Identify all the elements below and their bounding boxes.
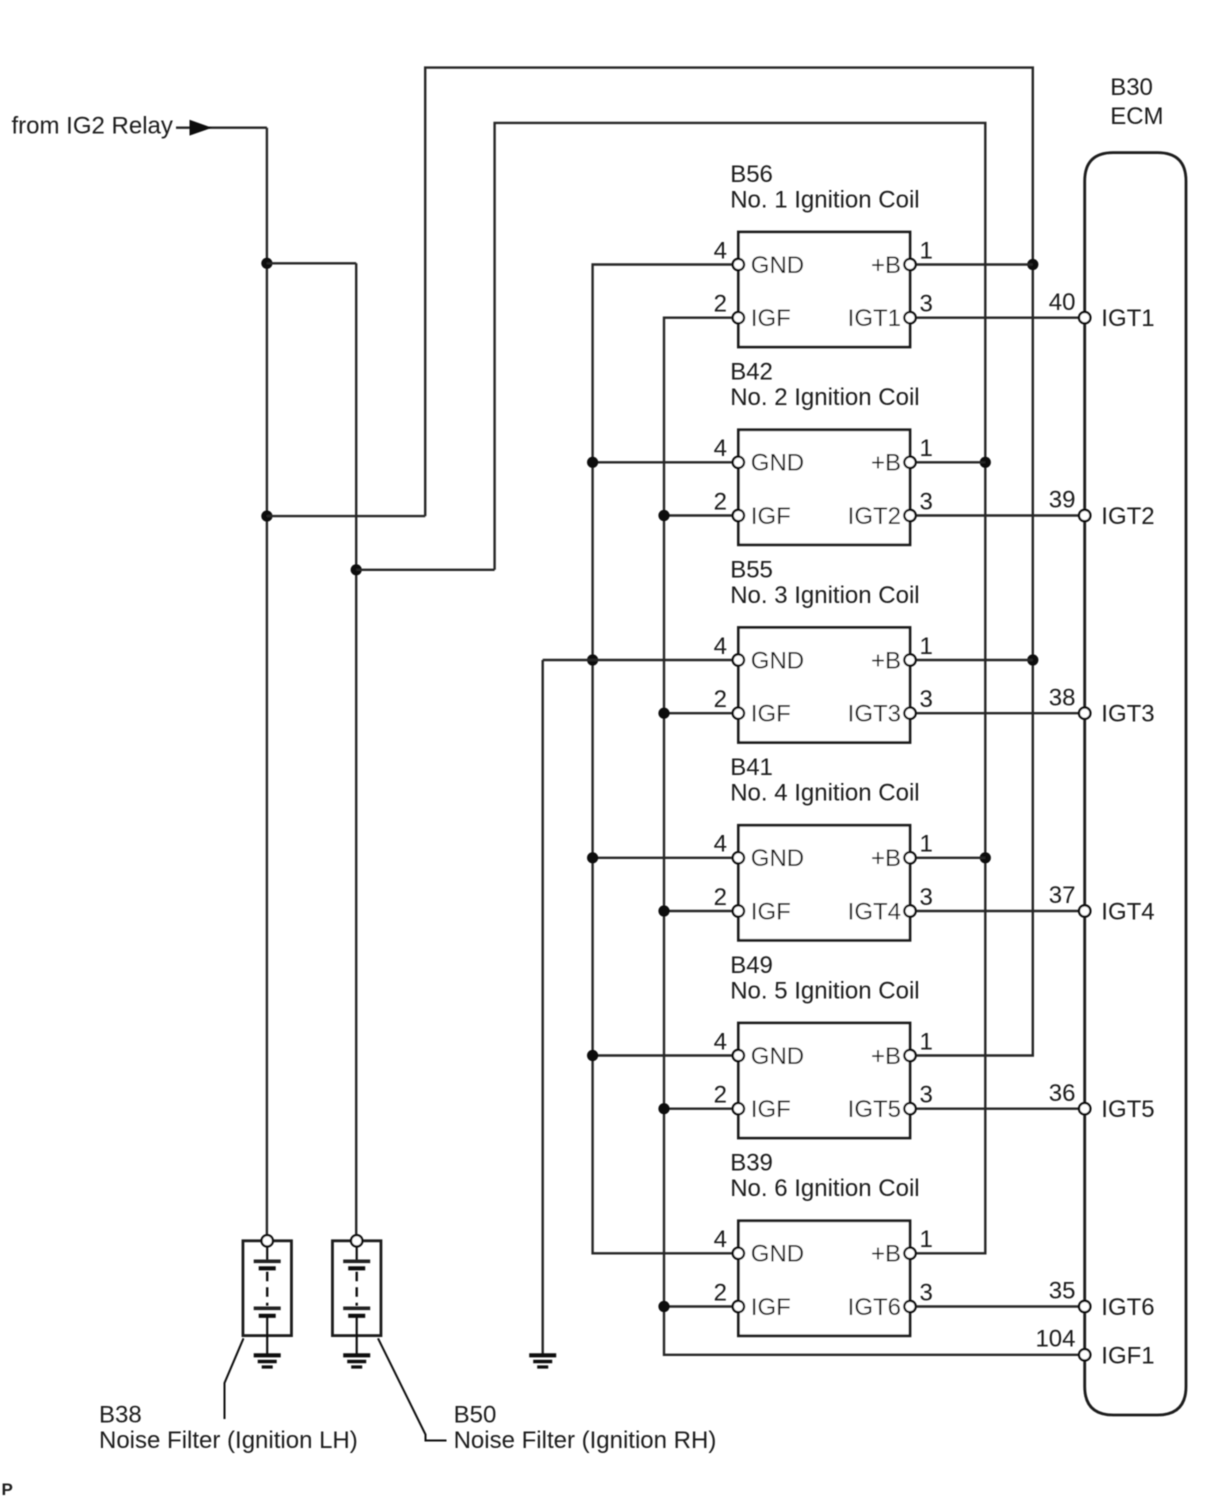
coil B39 pin 2 (IGF) xyxy=(733,1301,744,1312)
svg-text:IGT3: IGT3 xyxy=(1101,701,1154,728)
wire: coil 4 +B stub xyxy=(910,857,985,859)
junction: GND bus at coil 2 xyxy=(587,457,598,468)
svg-text:40: 40 xyxy=(1049,289,1076,316)
svg-text:4: 4 xyxy=(714,633,727,660)
coil B49 pin 3 (IGT5) xyxy=(904,1103,915,1114)
svg-text:IGF: IGF xyxy=(751,305,791,332)
svg-text:No. 4 Ignition Coil: No. 4 Ignition Coil xyxy=(730,780,919,807)
ground symbol under B50 xyxy=(343,1355,370,1367)
coil B42 pin 4 (GND) xyxy=(733,457,744,468)
svg-text:GND: GND xyxy=(751,845,804,872)
label B50 Noise Filter (Ignition RH) xyxy=(454,1401,717,1454)
svg-text:1: 1 xyxy=(920,1028,933,1055)
wire: IGF stub coil 5 xyxy=(664,1107,738,1109)
svg-text:GND: GND xyxy=(751,1043,804,1070)
ignition coil B42 (No. 2 Ignition Coil) xyxy=(714,359,933,545)
wire: tap to +B bus A riser xyxy=(267,515,425,517)
svg-text:P: P xyxy=(2,1480,13,1498)
coil B55 pin 3 (IGT3) xyxy=(904,708,915,719)
ECM pin 35 (IGT6) xyxy=(1049,1278,1155,1321)
ignition coil B56 (No. 1 Ignition Coil) xyxy=(714,161,933,347)
coil B55 pin 1 (+B) xyxy=(904,654,915,665)
wire: IGT2 from coil 2 to ECM xyxy=(910,514,1085,516)
junction: GND bus at coil 5 xyxy=(587,1050,598,1061)
wire: IG2 feed with arrowhead xyxy=(176,126,267,128)
svg-text:IGT1: IGT1 xyxy=(1101,305,1154,332)
junction: bus B / coil 2 +B xyxy=(980,457,991,468)
wire: IG2 vertical drop to noise filter B38 xyxy=(266,128,268,1236)
ignition coil B41 (No. 4 Ignition Coil) xyxy=(714,754,933,940)
svg-text:No. 1 Ignition Coil: No. 1 Ignition Coil xyxy=(730,186,919,213)
svg-text:36: 36 xyxy=(1049,1080,1076,1107)
svg-text:+B: +B xyxy=(871,845,901,872)
coil B49 pin 1 (+B) xyxy=(904,1050,915,1061)
coil B55 pin 4 (GND) xyxy=(733,654,744,665)
wire: IGF stub coil 3 xyxy=(664,712,738,714)
svg-text:1: 1 xyxy=(920,435,933,462)
wire from B38 to ground xyxy=(266,1316,268,1356)
dashed link inside B50 xyxy=(356,1272,358,1306)
coil B56 pin 2 (IGF) xyxy=(733,312,744,323)
coil B39 pin 1 (+B) xyxy=(904,1248,915,1259)
junction: IGF bus at coil 5 xyxy=(658,1103,669,1114)
ignition coil B49 (No. 5 Ignition Coil) xyxy=(714,952,933,1138)
leader line to B38 label xyxy=(225,1338,244,1419)
svg-text:No. 3 Ignition Coil: No. 3 Ignition Coil xyxy=(730,582,919,609)
wire: IGF stub coil 2 xyxy=(664,514,738,516)
svg-text:+B: +B xyxy=(871,1241,901,1268)
svg-text:ECM: ECM xyxy=(1110,103,1163,130)
svg-text:4: 4 xyxy=(714,1226,727,1253)
ignition coil B39 (No. 6 Ignition Coil) xyxy=(714,1150,933,1336)
svg-text:3: 3 xyxy=(920,1082,933,1109)
wire: IGT1 from coil 1 to ECM xyxy=(910,317,1085,319)
capacitor C2 of B50 (lower plates) xyxy=(343,1307,370,1311)
svg-text:IGF: IGF xyxy=(751,503,791,530)
svg-text:from IG2 Relay: from IG2 Relay xyxy=(12,113,173,140)
ground symbol (center) xyxy=(529,1355,556,1367)
wire: GND bus down left of coils xyxy=(593,265,739,1254)
svg-text:B38: B38 xyxy=(99,1401,142,1428)
svg-text:4: 4 xyxy=(714,831,727,858)
wire: IGT5 from coil 5 to ECM xyxy=(910,1107,1085,1109)
svg-text:IGF: IGF xyxy=(751,898,791,925)
svg-text:+B: +B xyxy=(871,1043,901,1070)
coil B55 pin 2 (IGF) xyxy=(733,708,744,719)
svg-text:104: 104 xyxy=(1035,1326,1075,1353)
ECM pin 38 (IGT3) xyxy=(1049,684,1155,727)
coil B49 pin 4 (GND) xyxy=(733,1050,744,1061)
ECM pin 39 (IGT2) xyxy=(1049,487,1155,530)
coil B39 pin 3 (IGT6) xyxy=(904,1301,915,1312)
leader line to B50 label xyxy=(378,1338,447,1440)
svg-text:Noise Filter (Ignition RH): Noise Filter (Ignition RH) xyxy=(454,1427,717,1454)
svg-text:B50: B50 xyxy=(454,1401,497,1428)
svg-text:+B: +B xyxy=(871,252,901,279)
ECM B30 connector outline xyxy=(1085,74,1186,1415)
svg-text:2: 2 xyxy=(714,884,727,911)
coil B41 pin 3 (IGT4) xyxy=(904,905,915,916)
wire: IGT6 from coil 6 to ECM xyxy=(910,1305,1085,1307)
wire: coil 3 GND to ground drop xyxy=(543,659,739,661)
svg-text:3: 3 xyxy=(920,1279,933,1306)
wire: IGT3 from coil 3 to ECM xyxy=(910,712,1085,714)
svg-text:2: 2 xyxy=(714,291,727,318)
junction: bus A / coil 1 +B xyxy=(1027,259,1038,270)
capacitor C1 of B38 (upper plates) xyxy=(266,1246,268,1261)
svg-text:IGF: IGF xyxy=(751,1096,791,1123)
svg-text:GND: GND xyxy=(751,252,804,279)
svg-text:B49: B49 xyxy=(730,952,773,979)
svg-text:3: 3 xyxy=(920,488,933,515)
ECM pin 40 (IGT1) xyxy=(1049,289,1155,332)
svg-text:GND: GND xyxy=(751,647,804,674)
svg-text:No. 2 Ignition Coil: No. 2 Ignition Coil xyxy=(730,384,919,411)
svg-text:4: 4 xyxy=(714,237,727,264)
wire: +B bus A (feeds coils 1,3,5) xyxy=(425,68,1033,1056)
svg-text:IGT6: IGT6 xyxy=(848,1294,901,1321)
noise filter B38 pin circle xyxy=(262,1235,273,1246)
svg-text:1: 1 xyxy=(920,633,933,660)
svg-text:38: 38 xyxy=(1049,684,1076,711)
noise filter B50 body xyxy=(332,1241,381,1336)
coil B56 pin 4 (GND) xyxy=(733,259,744,270)
svg-text:IGT2: IGT2 xyxy=(1101,503,1154,530)
junction: IGF bus at coil 2 xyxy=(658,510,669,521)
junction: bus B / coil 4 +B xyxy=(980,852,991,863)
svg-text:B56: B56 xyxy=(730,161,773,188)
wire: GND stub coil 2 xyxy=(593,461,739,463)
wire: IGF bus to ECM pin 104 xyxy=(664,318,1085,1355)
svg-text:Noise Filter (Ignition LH): Noise Filter (Ignition LH) xyxy=(99,1427,358,1454)
junction: IGF bus at coil 6 xyxy=(658,1301,669,1312)
coil B56 pin 3 (IGT1) xyxy=(904,312,915,323)
svg-text:1: 1 xyxy=(920,237,933,264)
svg-text:+B: +B xyxy=(871,450,901,477)
svg-text:4: 4 xyxy=(714,435,727,462)
svg-text:2: 2 xyxy=(714,1082,727,1109)
noise filter B38 body xyxy=(243,1241,292,1336)
wire from B50 to ground xyxy=(356,1316,358,1356)
svg-text:IGF: IGF xyxy=(751,701,791,728)
ECM pin 104 (IGF1) xyxy=(1035,1326,1154,1370)
svg-text:IGF1: IGF1 xyxy=(1101,1342,1154,1369)
wire: coil 3 +B stub xyxy=(910,659,1033,661)
junction: bus A / coil 3 +B xyxy=(1027,654,1038,665)
wire: GND stub coil 4 xyxy=(593,857,739,859)
svg-text:IGT6: IGT6 xyxy=(1101,1294,1154,1321)
wire: IGF stub coil 6 xyxy=(664,1305,738,1307)
coil B42 pin 3 (IGT2) xyxy=(904,510,915,521)
svg-text:GND: GND xyxy=(751,1241,804,1268)
svg-text:GND: GND xyxy=(751,450,804,477)
svg-text:No. 6 Ignition Coil: No. 6 Ignition Coil xyxy=(730,1175,919,1202)
ground symbol under B38 xyxy=(254,1355,281,1367)
label B38 Noise Filter (Ignition LH) xyxy=(99,1401,358,1454)
svg-text:IGF: IGF xyxy=(751,1294,791,1321)
svg-text:2: 2 xyxy=(714,488,727,515)
coil B41 pin 4 (GND) xyxy=(733,852,744,863)
svg-text:B39: B39 xyxy=(730,1150,773,1177)
wire: ground drop vertical xyxy=(542,660,544,1355)
coil B39 pin 4 (GND) xyxy=(733,1248,744,1259)
junction: B50 drop tap to +B bus B xyxy=(351,564,362,575)
svg-text:IGT2: IGT2 xyxy=(848,503,901,530)
wire: branch to noise filter B50 xyxy=(267,262,356,264)
capacitor C2 of B38 (lower plates) xyxy=(254,1307,281,1311)
svg-text:B55: B55 xyxy=(730,556,773,583)
wire: coil 1 +B stub xyxy=(910,263,1033,265)
svg-text:3: 3 xyxy=(920,686,933,713)
coil B56 pin 1 (+B) xyxy=(904,259,915,270)
coil B41 pin 1 (+B) xyxy=(904,852,915,863)
noise filter B50 pin circle xyxy=(351,1235,362,1246)
svg-text:2: 2 xyxy=(714,1279,727,1306)
coil B42 pin 2 (IGF) xyxy=(733,510,744,521)
wire: vertical drop to noise filter B50 xyxy=(355,263,357,1236)
svg-text:IGT4: IGT4 xyxy=(848,898,901,925)
coil B49 pin 2 (IGF) xyxy=(733,1103,744,1114)
junction: IG2/branch to B50 xyxy=(261,258,272,269)
svg-text:B30: B30 xyxy=(1110,74,1153,101)
svg-text:39: 39 xyxy=(1049,487,1076,514)
wire: GND stub coil 5 xyxy=(593,1054,739,1056)
junction: IG2 tap to +B bus A xyxy=(261,510,272,521)
svg-text:IGT5: IGT5 xyxy=(1101,1096,1154,1123)
junction: GND bus at coil 3 xyxy=(587,654,598,665)
coil B42 pin 1 (+B) xyxy=(904,457,915,468)
svg-text:+B: +B xyxy=(871,647,901,674)
wire: +B bus B (feeds coils 2,4,6) xyxy=(495,123,986,1253)
ignition coil B55 (No. 3 Ignition Coil) xyxy=(714,556,933,742)
svg-text:IGT3: IGT3 xyxy=(848,701,901,728)
wire: IGF stub coil 4 xyxy=(664,910,738,912)
wire: coil 2 +B stub xyxy=(910,461,985,463)
wire: IGT4 from coil 4 to ECM xyxy=(910,910,1085,912)
ECM pin 37 (IGT4) xyxy=(1049,882,1155,925)
svg-text:1: 1 xyxy=(920,831,933,858)
wire: tap to +B bus B riser xyxy=(356,569,494,571)
ECM pin 36 (IGT5) xyxy=(1049,1080,1155,1123)
dashed link inside B38 xyxy=(266,1272,268,1306)
svg-text:37: 37 xyxy=(1049,882,1076,909)
junction: GND bus at coil 4 xyxy=(587,852,598,863)
svg-text:IGT4: IGT4 xyxy=(1101,899,1154,926)
junction: IGF bus at coil 3 xyxy=(658,708,669,719)
svg-text:3: 3 xyxy=(920,884,933,911)
junction: IGF bus at coil 4 xyxy=(658,905,669,916)
svg-text:2: 2 xyxy=(714,686,727,713)
svg-text:No. 5 Ignition Coil: No. 5 Ignition Coil xyxy=(730,977,919,1004)
svg-text:35: 35 xyxy=(1049,1278,1076,1305)
capacitor C1 of B50 (upper plates) xyxy=(356,1246,358,1261)
coil B41 pin 2 (IGF) xyxy=(733,905,744,916)
svg-text:IGT5: IGT5 xyxy=(848,1096,901,1123)
svg-text:1: 1 xyxy=(920,1226,933,1253)
svg-text:B42: B42 xyxy=(730,359,773,386)
svg-text:4: 4 xyxy=(714,1028,727,1055)
svg-text:IGT1: IGT1 xyxy=(848,305,901,332)
svg-text:3: 3 xyxy=(920,291,933,318)
svg-text:B41: B41 xyxy=(730,754,773,781)
